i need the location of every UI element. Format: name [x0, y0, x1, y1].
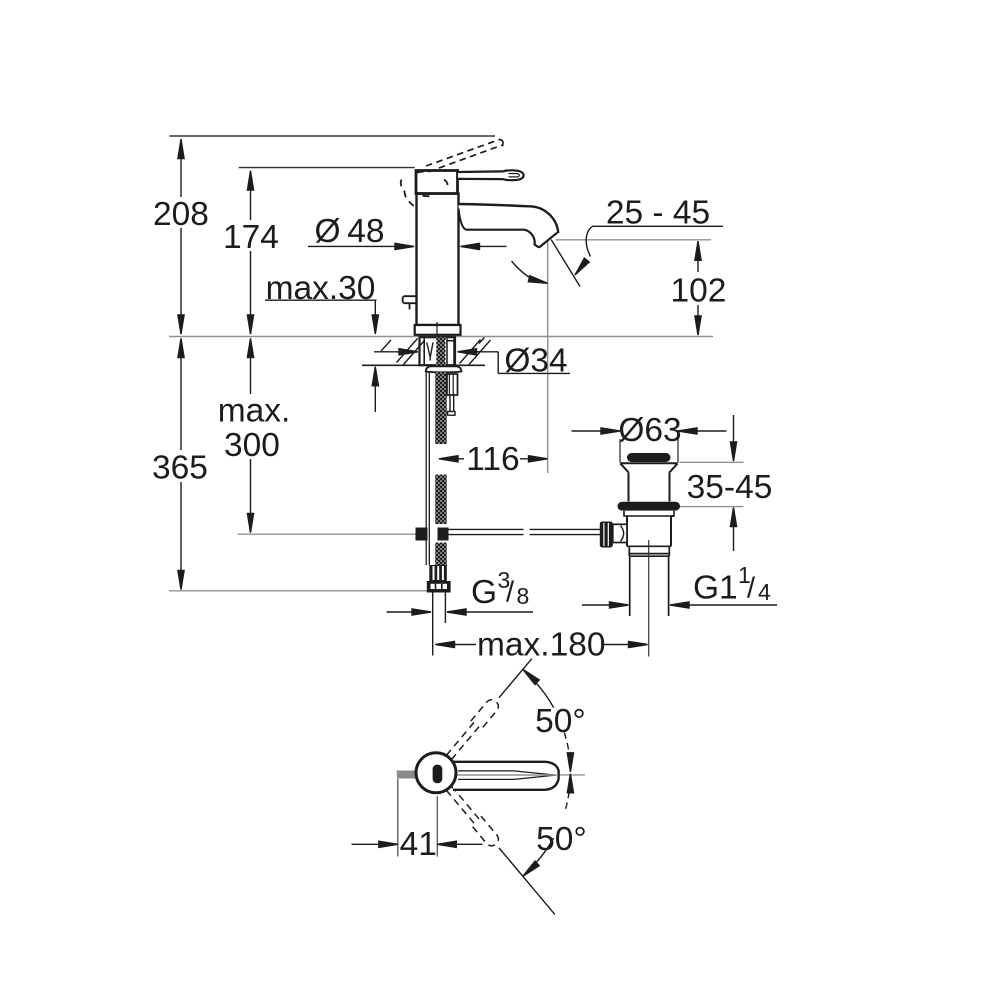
plug dome — [627, 453, 671, 462]
dashed lever raised — [426, 139, 502, 172]
lever inner slot — [458, 771, 556, 780]
aerator tilt line — [551, 240, 580, 287]
svg-text:50°: 50° — [536, 821, 587, 858]
dashed cap tilted — [401, 171, 448, 206]
lever solid — [458, 170, 524, 180]
drain clamp level line — [680, 506, 744, 508]
dashed lever upper 50 — [444, 654, 537, 761]
lever back stub — [397, 771, 417, 779]
locknut flange — [426, 366, 462, 372]
knurled knob — [600, 522, 613, 548]
spout bottom edge — [466, 229, 525, 231]
max300 level line — [238, 533, 417, 535]
hose braid segment 3 — [435, 543, 447, 567]
rotation arc arrow spout — [512, 261, 543, 283]
spout top edge — [459, 204, 529, 206]
pop-up rod — [450, 395, 454, 412]
angle arc upper solid part — [526, 673, 554, 708]
svg-text:208: 208 — [153, 196, 209, 233]
spout fill — [459, 204, 559, 248]
svg-text:365: 365 — [152, 450, 208, 487]
o-ring — [618, 502, 681, 511]
pop-up rod housing inner lines — [449, 375, 453, 395]
angle arc lower solid part — [526, 838, 554, 873]
svg-text:8: 8 — [517, 583, 530, 609]
drain centerline — [648, 540, 650, 657]
dim leader Ø34 — [374, 352, 570, 374]
pop-up knob on left of body — [403, 296, 417, 309]
svg-text:50°: 50° — [535, 703, 586, 740]
leader curve 25-45 — [586, 226, 592, 256]
svg-text:max.180: max.180 — [477, 627, 606, 664]
body circle top view — [416, 753, 456, 793]
dim line 35-45 lower — [733, 508, 735, 552]
spout mouth face — [539, 232, 558, 248]
hose braid segment 1 — [435, 373, 447, 445]
svg-text:Ø63: Ø63 — [618, 412, 681, 449]
horizontal pop-up rod to drain — [449, 529, 601, 534]
valve upper shoulder — [624, 511, 674, 516]
angle arc upper dashed part — [564, 732, 569, 754]
handle cap — [416, 171, 458, 194]
reference line 174 — [239, 167, 415, 169]
spout outer curve — [528, 206, 558, 233]
pop-up rod housing — [447, 374, 458, 395]
shank rod right — [447, 339, 454, 366]
dim line 41 — [352, 843, 483, 845]
dim line 102 — [697, 241, 699, 335]
svg-text:/: / — [506, 577, 515, 609]
top reference line 208 — [170, 135, 496, 137]
valve body bottom band — [627, 546, 671, 556]
dim line 174 — [250, 171, 252, 335]
svg-text:/: / — [747, 573, 756, 605]
max30 underline and drop — [265, 300, 377, 334]
41 dim extension right / circle centerline down — [436, 796, 438, 857]
shank V detail — [427, 343, 433, 361]
svg-text:25 - 45: 25 - 45 — [606, 195, 710, 232]
dim line G1 1/4 — [582, 604, 777, 606]
dim 25-45 underline — [592, 225, 723, 227]
svg-text:41: 41 — [400, 826, 437, 863]
counter top line — [169, 336, 713, 338]
dim line G3/8 — [387, 611, 534, 613]
dim line max300 — [250, 339, 252, 533]
shank inner left line — [423, 337, 425, 365]
flange cone — [620, 463, 677, 501]
valve body — [627, 516, 674, 546]
dim line 116 — [439, 458, 548, 460]
svg-text:max.30: max.30 — [266, 270, 376, 307]
arrows — [178, 140, 184, 159]
dashed lever lower 50 — [444, 784, 560, 919]
top view centerline through lever — [457, 774, 585, 776]
faucet body — [417, 194, 459, 326]
hose nut G3/8 — [427, 581, 451, 593]
svg-text:Ø34: Ø34 — [504, 343, 567, 380]
faucet centerline — [436, 322, 438, 336]
lever tip inner slot — [509, 174, 520, 177]
svg-text:max.: max. — [218, 393, 291, 430]
dim line Ø48 — [308, 245, 507, 247]
spout outlet level line — [556, 239, 711, 241]
svg-text:G1: G1 — [693, 570, 738, 607]
flange extension lines — [620, 439, 678, 463]
spout outlet centerline vertical — [547, 241, 549, 474]
angle arc lower dashed part — [564, 792, 569, 814]
svg-text:G: G — [471, 574, 497, 611]
svg-text:174: 174 — [223, 219, 279, 256]
drain flange underside level line — [680, 461, 744, 463]
tailpipe — [630, 556, 669, 616]
dim line max180 — [436, 644, 648, 646]
dim line Ø63 — [572, 430, 727, 432]
svg-text:35-45: 35-45 — [687, 469, 773, 506]
threaded shank outline — [420, 337, 456, 365]
41 dim extension left — [397, 779, 399, 857]
centerline over lever — [457, 774, 558, 776]
svg-text:102: 102 — [671, 273, 727, 310]
hose end level line (365 bottom) — [169, 590, 428, 592]
dim line 35-45 upper — [733, 415, 735, 461]
hose outline lines — [426, 373, 429, 566]
dim line 365 — [180, 339, 182, 590]
spout body fillet — [459, 209, 467, 230]
rod clamp right block — [438, 528, 449, 541]
counter hatching right — [460, 338, 491, 365]
max30 lower pointer — [374, 367, 376, 412]
knob connector — [613, 524, 627, 542]
spout bottom curve at mouth — [525, 230, 540, 248]
hose end ribbed fitting — [429, 565, 447, 581]
top view centerline left stub — [398, 774, 414, 776]
svg-text:Ø 48: Ø 48 — [314, 213, 384, 250]
50 radial extension line lower — [499, 848, 555, 915]
faucet base — [415, 325, 461, 335]
pipe line right below nut — [444, 593, 446, 624]
lever slot black — [433, 765, 443, 784]
shank braid column — [436, 337, 445, 365]
pipe line left below nut — [432, 593, 434, 656]
hose braid segment 2 — [435, 475, 447, 525]
counter underside line — [362, 364, 485, 366]
counter hatching left — [381, 339, 424, 365]
pop-up rod foot — [448, 412, 455, 416]
svg-text:300: 300 — [224, 427, 280, 464]
lever top view — [453, 762, 559, 790]
svg-text:4: 4 — [758, 579, 771, 605]
connector arc detail — [621, 526, 624, 542]
rod clamp left block — [416, 528, 428, 541]
50 radial extension line upper — [499, 659, 532, 698]
svg-text:116: 116 — [466, 441, 519, 478]
dim line 208 — [180, 139, 182, 334]
